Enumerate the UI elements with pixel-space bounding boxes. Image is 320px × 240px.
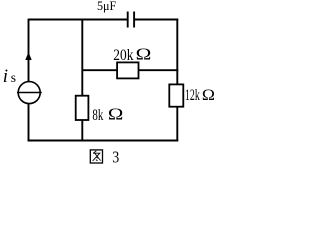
svg-text:12k: 12k (185, 87, 200, 104)
resistor R1 8k: body (76, 96, 89, 120)
wire: middle horizontal, right segment (20k resistor to right side) (139, 69, 179, 71)
wire: right side upper (top-right corner to 12k resistor) (176, 19, 178, 85)
resistor R2 20k: body (117, 62, 138, 78)
wire: right side lower (12k resistor to bottom-right corner) (176, 107, 178, 142)
svg-text:s: s (11, 70, 16, 85)
svg-text:5μF: 5μF (97, 0, 116, 13)
wire: middle branch vertical upper (top wire down to 8k resistor) (81, 19, 83, 96)
svg-text:8k: 8k (92, 107, 103, 124)
svg-text:Ω: Ω (202, 86, 215, 104)
svg-text:i: i (3, 66, 8, 87)
wire: left side lower (current source to bottom-left corner) (28, 104, 30, 142)
wire: middle horizontal, left segment (node B to 20k resistor) (82, 69, 117, 71)
current source IS: horizontal bar (17, 92, 42, 94)
wire: left side upper (top-left corner down to current source) (28, 19, 30, 82)
svg-text:Ω: Ω (136, 46, 152, 64)
resistor R3 12k: body (169, 84, 183, 106)
capacitor C1 5uF: right plate (133, 12, 135, 28)
wire: bottom side (28, 140, 179, 142)
caption: character TU (figure) drawn as glyph (90, 150, 102, 163)
svg-text:Ω: Ω (108, 106, 123, 124)
current source IS: circle (18, 82, 40, 104)
wire: top side, right segment (capacitor to top-right corner) (135, 19, 178, 21)
current direction arrow (points up) (25, 52, 31, 60)
svg-text:20k: 20k (113, 47, 133, 64)
svg-text:3: 3 (112, 148, 119, 167)
capacitor C1 5uF: left plate (127, 12, 129, 28)
wire: top side, left segment (node A to capacitor) (29, 19, 128, 21)
wire: middle branch vertical lower (8k resistor to bottom wire) (81, 120, 83, 141)
